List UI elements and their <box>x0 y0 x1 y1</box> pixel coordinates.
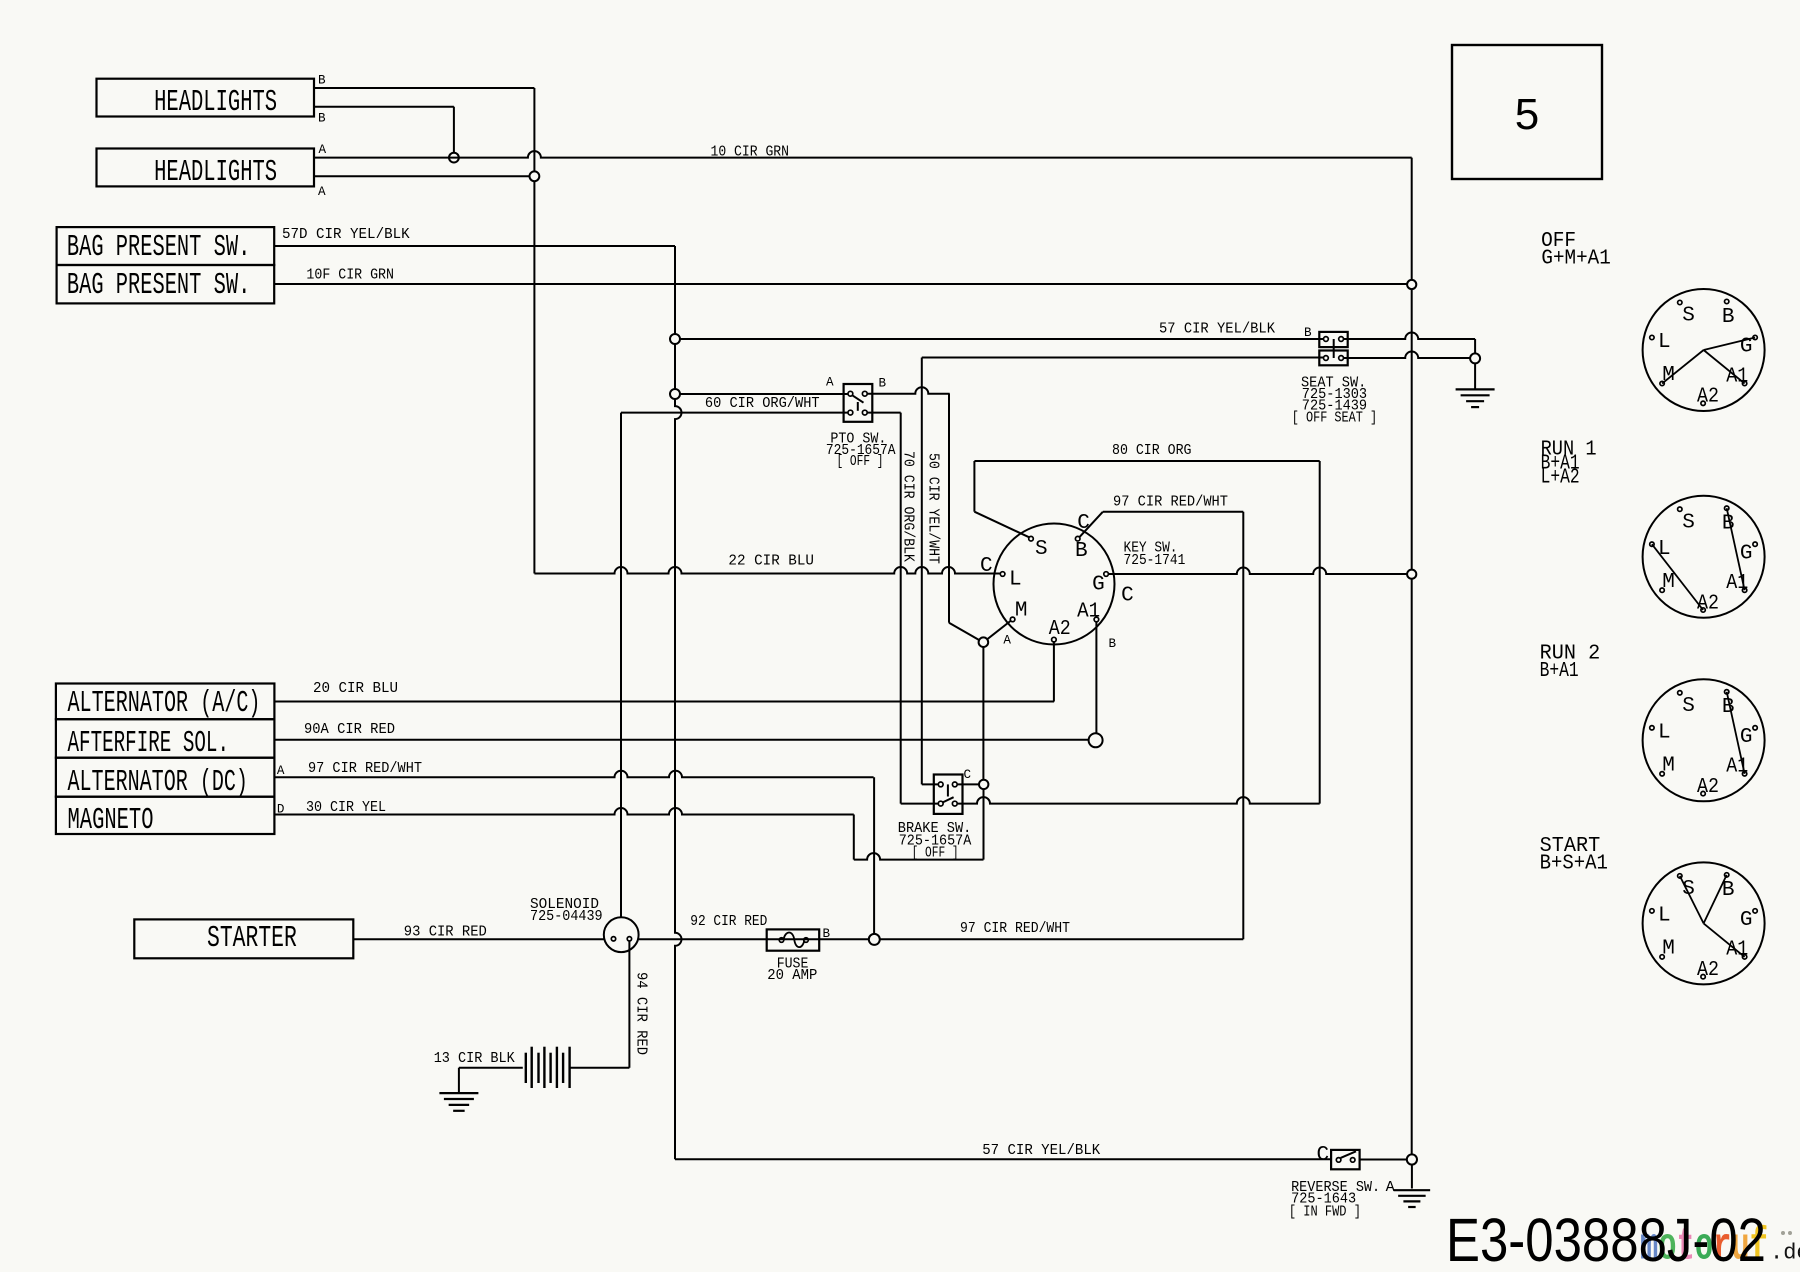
wire: seat switch upper right to ground corner <box>1343 333 1475 340</box>
svg-text:G: G <box>1740 909 1753 932</box>
svg-text:94 CIR RED: 94 CIR RED <box>632 972 650 1055</box>
svg-text:97 CIR RED/WHT: 97 CIR RED/WHT <box>960 919 1070 937</box>
svg-text:B: B <box>1075 540 1088 563</box>
battery symbol <box>525 1053 527 1083</box>
key position diagram RUN 1 <box>1643 496 1765 618</box>
wire: A1 vertical to 90A connector <box>1095 622 1097 734</box>
svg-text:D: D <box>277 803 285 817</box>
svg-text:M: M <box>1662 571 1675 594</box>
svg-text:22 CIR BLU: 22 CIR BLU <box>728 552 814 570</box>
key switch terminal M <box>1010 617 1015 622</box>
wire: 57D CIR YEL/BLK horizontal <box>274 245 675 247</box>
wire: 94 CIR RED vertical <box>628 941 630 1068</box>
wire: 57 CIR YEL/BLK bottom <box>675 1158 1331 1160</box>
svg-text:ALTERNATOR (DC): ALTERNATOR (DC) <box>68 766 248 800</box>
key position diagram START <box>1643 862 1765 984</box>
svg-text:B+S+A1: B+S+A1 <box>1540 853 1608 876</box>
wire: 93 CIR RED <box>353 938 604 940</box>
junction node M/PTO-B/brake <box>979 637 989 647</box>
svg-text:S: S <box>1682 305 1695 328</box>
svg-text:57 CIR YEL/BLK: 57 CIR YEL/BLK <box>1159 320 1276 338</box>
svg-text:L: L <box>1658 331 1671 354</box>
svg-text:STARTER: STARTER <box>207 922 297 956</box>
wire: 80 vertical x1319.7 <box>1319 461 1321 804</box>
wire: diagonal PTO-B to M junction <box>949 623 980 640</box>
wire: 30 vertical jog <box>853 815 855 860</box>
reverse switch pins <box>1336 1158 1341 1163</box>
svg-text:B: B <box>1109 637 1117 651</box>
svg-text:ALTERNATOR (A/C): ALTERNATOR (A/C) <box>68 687 261 721</box>
svg-text:C: C <box>1317 1144 1330 1167</box>
svg-text:A: A <box>826 376 834 390</box>
wire: 80 path up <box>973 461 975 512</box>
watermark motoruf.de <box>1640 1222 1800 1272</box>
component box: starter <box>134 919 353 958</box>
wire: 57 CIR YEL/BLK to seat switch <box>680 338 1324 340</box>
svg-text:A1: A1 <box>1726 572 1748 595</box>
svg-text:BAG PRESENT SW.: BAG PRESENT SW. <box>67 269 250 303</box>
wire: G to 10GRN vertical <box>1108 568 1407 575</box>
svg-text:A: A <box>319 143 327 157</box>
svg-text:L+A2: L+A2 <box>1541 466 1580 489</box>
svg-text:A: A <box>318 185 326 199</box>
svg-text:92 CIR RED: 92 CIR RED <box>690 912 767 930</box>
svg-text:S: S <box>1682 511 1695 534</box>
component box: headlights 2 <box>97 149 315 187</box>
seat switch lower box <box>1319 351 1347 366</box>
brake switch actuator <box>947 784 949 796</box>
wire: A2 vertical <box>1053 642 1055 702</box>
svg-text:725-1741: 725-1741 <box>1124 551 1186 569</box>
wire: vertical M junction to brake C <box>982 647 984 780</box>
wire: 97 CIR RED/WHT horizontal <box>1103 511 1244 513</box>
svg-text:60 CIR ORG/WHT: 60 CIR ORG/WHT <box>705 394 820 412</box>
svg-text:A: A <box>1386 1178 1396 1196</box>
solenoid circle <box>604 917 639 952</box>
wire: 13 CIR BLK <box>459 1067 523 1069</box>
junction node brake C <box>979 780 988 789</box>
junction node seat ground <box>1470 353 1480 363</box>
seat switch pins <box>1324 337 1329 342</box>
svg-text:HEADLIGHTS: HEADLIGHTS <box>154 156 277 190</box>
wire: reverse ground stem <box>1411 1165 1413 1189</box>
junction node reverse ground <box>1407 1154 1417 1164</box>
wire: vertical from headlight2 B down to junction <box>453 107 455 153</box>
wire: 13 ground stem <box>458 1068 460 1093</box>
wire: 97 vertical x873.6 <box>873 777 875 934</box>
svg-text:A2: A2 <box>1049 618 1071 641</box>
svg-text:L: L <box>1009 569 1022 592</box>
wire: M diagonal <box>987 621 1011 640</box>
component box: headlights 1 <box>97 79 315 117</box>
wire: headlight2 B <box>314 106 454 108</box>
wire: 30 jog horizontal <box>854 853 984 860</box>
svg-text:.de: .de <box>1770 1241 1800 1266</box>
component box: bag present switch 2 <box>57 265 275 303</box>
fuse pins <box>779 938 784 943</box>
svg-text:M: M <box>1662 938 1675 961</box>
wire: fuse to 97 junction <box>767 938 869 940</box>
wire: vertical x948.5 PTO B down <box>948 394 950 623</box>
wire: 97 vertical x1243.3 <box>1242 512 1244 940</box>
solenoid pins <box>611 937 615 941</box>
wire: 20 CIR BLU <box>274 701 1054 703</box>
junction node 57D/57 top line <box>670 334 680 344</box>
svg-text:A1: A1 <box>1077 600 1100 623</box>
key switch terminal B <box>1075 536 1080 541</box>
PTO switch box <box>844 384 873 422</box>
wire: brake TR pin to C junction <box>957 783 979 785</box>
wire: seat ground stem <box>1474 363 1476 389</box>
svg-text:M: M <box>1015 600 1028 623</box>
wire: seat switch lower left run to 50 vertical <box>922 357 1324 359</box>
svg-text:A1: A1 <box>1726 756 1748 779</box>
svg-text:50 CIR YEL/WHT: 50 CIR YEL/WHT <box>924 453 942 564</box>
svg-text:70 CIR ORG/BLK: 70 CIR ORG/BLK <box>900 451 918 563</box>
wire: B diagonal <box>1080 512 1103 537</box>
wire: PTO bottom right to 70 vertical <box>867 412 901 414</box>
svg-text:BAG PRESENT SW.: BAG PRESENT SW. <box>67 231 250 265</box>
fuse box <box>767 929 820 950</box>
wire: solenoid vertical up (60 net) <box>620 413 622 918</box>
wire: vertical 70 CIR ORG/BLK x900.7 <box>900 413 902 804</box>
svg-text:B: B <box>1722 306 1735 329</box>
svg-text:20 AMP: 20 AMP <box>767 966 817 984</box>
svg-text:G+M+A1: G+M+A1 <box>1541 248 1610 271</box>
reverse switch box <box>1331 1150 1360 1169</box>
key switch terminal A2 <box>1052 637 1057 642</box>
wire: seat switch lower right to junction <box>1343 352 1470 359</box>
wire: PTO bottom left run <box>621 412 848 414</box>
ground symbol seat switch <box>1456 388 1495 390</box>
ground symbol reverse <box>1394 1189 1431 1191</box>
svg-text:B: B <box>318 74 326 88</box>
wire: 92 CIR RED <box>638 938 767 940</box>
wire: 30 CIR YEL from magneto <box>274 808 853 815</box>
key switch terminal A1 <box>1094 617 1099 622</box>
wire: 90A CIR RED <box>274 739 1088 741</box>
svg-text:A: A <box>1003 633 1011 647</box>
svg-text:30 CIR YEL: 30 CIR YEL <box>306 798 386 816</box>
svg-text:[ OFF SEAT ]: [ OFF SEAT ] <box>1292 408 1378 426</box>
svg-text:A2: A2 <box>1697 592 1719 615</box>
seat switch actuator link <box>1333 339 1335 358</box>
PTO switch lever <box>852 395 863 402</box>
reverse switch lever <box>1341 1151 1356 1158</box>
wire: 10F CIR GRN horizontal <box>274 283 1407 285</box>
svg-text:97 CIR RED/WHT: 97 CIR RED/WHT <box>1113 493 1228 511</box>
svg-text:S: S <box>1682 878 1695 901</box>
wire: headlight1 B to vertical <box>314 87 534 89</box>
svg-text:MAGNETO: MAGNETO <box>68 804 154 838</box>
junction node 10 GRN / 10F <box>1407 280 1416 289</box>
key position diagram RUN 2 <box>1643 679 1765 801</box>
brake switch pins <box>938 782 943 787</box>
wire: 94 to battery <box>570 1067 630 1069</box>
svg-text:B+A1: B+A1 <box>1540 660 1579 683</box>
svg-text:B: B <box>879 377 887 391</box>
svg-text:A2: A2 <box>1697 776 1719 799</box>
component box: alternator DC <box>56 758 275 797</box>
svg-text:A2: A2 <box>1697 959 1719 982</box>
svg-text:57 CIR YEL/BLK: 57 CIR YEL/BLK <box>982 1141 1101 1159</box>
key switch terminal G <box>1104 572 1109 577</box>
wire: seat corner down to junction <box>1474 339 1476 353</box>
svg-text:S: S <box>1035 538 1048 561</box>
svg-text:5: 5 <box>1515 90 1539 139</box>
svg-text:80 CIR ORG: 80 CIR ORG <box>1112 441 1192 459</box>
svg-text:97 CIR RED/WHT: 97 CIR RED/WHT <box>308 759 422 777</box>
component box: bag present switch 1 <box>57 227 275 265</box>
svg-text:HEADLIGHTS: HEADLIGHTS <box>154 86 277 120</box>
junction node 92/97 <box>869 934 880 945</box>
sheet number box 5 <box>1452 45 1602 179</box>
fuse element <box>784 933 805 948</box>
wire: 97 CIR RED/WHT bottom <box>880 938 1244 940</box>
svg-text:57D CIR YEL/BLK: 57D CIR YEL/BLK <box>282 225 410 243</box>
svg-text:L: L <box>1658 905 1671 928</box>
connector circle 90A/A1 <box>1089 733 1103 747</box>
ground symbol battery <box>439 1092 478 1094</box>
key position diagram OFF <box>1643 289 1765 411</box>
wire: PTO B to corner <box>867 387 950 393</box>
svg-text:C: C <box>1121 584 1134 607</box>
wire: 60 CIR ORG/WHT junction to PTO A <box>680 393 848 395</box>
svg-text:AFTERFIRE SOL.: AFTERFIRE SOL. <box>68 727 230 761</box>
svg-text:B: B <box>1304 326 1312 340</box>
wire: 20 corner up <box>1053 701 1055 703</box>
key switch terminal L <box>1000 572 1005 577</box>
svg-text:90A CIR RED: 90A CIR RED <box>304 720 395 738</box>
svg-text:L: L <box>1658 722 1671 745</box>
svg-text:10 CIR GRN: 10 CIR GRN <box>711 143 790 161</box>
svg-text:M: M <box>1662 755 1675 778</box>
component box: afterfire solenoid <box>56 719 275 758</box>
svg-text:A: A <box>277 764 285 778</box>
component box: magneto <box>56 797 275 834</box>
wire: vertical x534 from B1 down to 22 CIR BLU <box>533 88 535 171</box>
PTO switch pins <box>848 391 853 396</box>
svg-text:[ OFF ]: [ OFF ] <box>837 452 884 470</box>
key switch terminal S <box>1029 536 1034 541</box>
svg-text:20 CIR BLU: 20 CIR BLU <box>313 679 398 697</box>
wire: S diagonal <box>974 512 1029 538</box>
svg-text:E3-03888J-02: E3-03888J-02 <box>1446 1206 1766 1272</box>
svg-text:[ OFF ]: [ OFF ] <box>912 843 959 861</box>
svg-text:A2: A2 <box>1697 386 1719 409</box>
svg-text:13 CIR BLK: 13 CIR BLK <box>434 1049 516 1067</box>
svg-text:93 CIR RED: 93 CIR RED <box>404 923 487 941</box>
wire: 22 CIR BLU <box>534 567 1000 574</box>
component box: alternator AC <box>56 684 275 720</box>
wire: 30 up to brake C <box>983 789 985 860</box>
svg-text:L: L <box>1658 538 1671 561</box>
svg-text:[ IN FWD ]: [ IN FWD ] <box>1289 1202 1361 1220</box>
junction node headlightB1/A2 <box>530 171 540 181</box>
wire: 10 CIR GRN main run <box>314 151 1412 158</box>
wire: vertical 50 CIR YEL/WHT x921.8 <box>921 358 923 785</box>
seat switch upper box <box>1319 332 1347 347</box>
wire: reverse to ground junction <box>1360 1159 1407 1161</box>
svg-text:G: G <box>1740 542 1753 565</box>
wire: 97 CIR RED/WHT from alternator DC <box>274 771 873 778</box>
junction node G wire / vertical <box>1407 570 1416 579</box>
wire: vertical x675 from 57D corner down to bottom 57 line <box>674 246 676 334</box>
wire: 80 return to brake lower-right pin <box>958 797 1320 804</box>
svg-text:B: B <box>318 112 326 126</box>
brake switch box <box>934 775 963 814</box>
wire: headlight2 A to junction <box>314 175 529 177</box>
svg-text:C: C <box>980 555 993 578</box>
key switch circle <box>994 524 1115 645</box>
svg-text:S: S <box>1682 695 1695 718</box>
svg-text:G: G <box>1740 726 1753 749</box>
svg-text:C: C <box>964 768 972 782</box>
svg-text:10F CIR GRN: 10F CIR GRN <box>306 265 394 283</box>
svg-text:725-04439: 725-04439 <box>530 907 603 925</box>
junction node on 10 CIR GRN at headlight A <box>449 153 459 163</box>
svg-text:G: G <box>1092 574 1105 597</box>
wire: 80 CIR ORG horizontal <box>974 460 1319 462</box>
junction node 57D/PTO A <box>670 389 680 399</box>
wire: 50 corner to brake upper-left pin <box>922 783 939 785</box>
wire: vertical 10GRN x1411.7 long <box>1411 158 1413 280</box>
wire: 70 corner to brake lower-left pin <box>901 803 939 805</box>
